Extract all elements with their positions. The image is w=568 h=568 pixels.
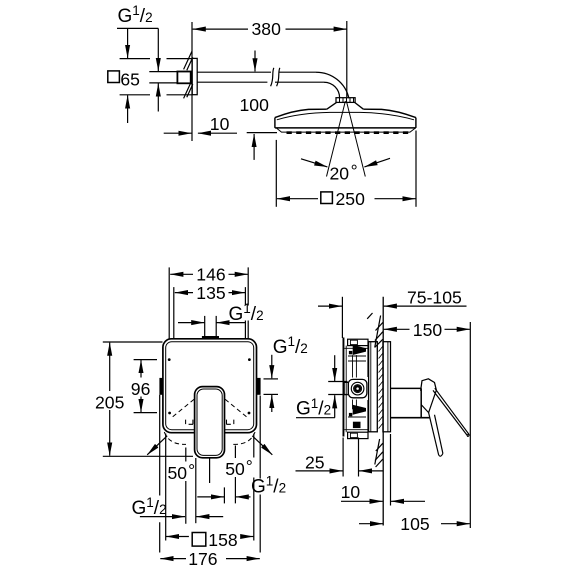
- svg-text:G1/2: G1/2: [296, 396, 331, 420]
- svg-text:25: 25: [305, 452, 325, 472]
- svg-text:50°: 50°: [225, 456, 253, 479]
- svg-text:146: 146: [196, 265, 226, 285]
- svg-text:G1/2: G1/2: [273, 334, 308, 358]
- svg-text:50°: 50°: [168, 460, 196, 483]
- svg-text:96: 96: [131, 379, 151, 399]
- svg-text:176: 176: [188, 549, 218, 568]
- svg-text:65: 65: [120, 69, 140, 89]
- svg-text:205: 205: [95, 393, 125, 413]
- svg-text:250: 250: [336, 189, 366, 209]
- svg-text:G1/2: G1/2: [118, 3, 153, 27]
- svg-text:G1/2: G1/2: [251, 474, 286, 498]
- svg-text:G1/2: G1/2: [229, 301, 264, 325]
- svg-text:20°: 20°: [330, 161, 358, 184]
- svg-text:135: 135: [196, 283, 226, 303]
- svg-text:10: 10: [210, 114, 230, 134]
- svg-text:105: 105: [400, 514, 430, 534]
- svg-text:150: 150: [413, 320, 443, 340]
- svg-text:380: 380: [252, 19, 282, 39]
- svg-text:75-105: 75-105: [407, 288, 462, 308]
- svg-text:100: 100: [240, 95, 270, 115]
- svg-text:G1/2: G1/2: [132, 495, 167, 519]
- svg-text:10: 10: [341, 482, 361, 502]
- svg-text:158: 158: [208, 530, 238, 550]
